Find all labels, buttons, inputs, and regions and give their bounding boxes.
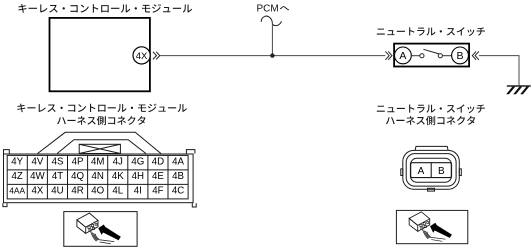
svg-text:4P: 4P: [72, 157, 84, 168]
svg-text:4O: 4O: [91, 186, 104, 197]
svg-text:PCM: PCM: [257, 3, 279, 14]
label: neutral switch harness-side connector: [377, 104, 485, 125]
svg-text:B: B: [438, 166, 445, 177]
svg-text:A: A: [418, 166, 425, 177]
svg-text:4I: 4I: [134, 186, 142, 197]
label: PCM-he (to PCM): [257, 3, 290, 14]
svg-text:4X: 4X: [136, 51, 148, 62]
neutral switch box S1: [394, 44, 469, 67]
svg-text:4U: 4U: [51, 186, 63, 197]
wire break symbol (goes to PCM): [261, 16, 272, 24]
connector pin 4X on module: [133, 47, 150, 64]
svg-text:4V: 4V: [31, 157, 43, 168]
svg-text:4A: 4A: [172, 157, 184, 168]
icon: connector viewed from harness side (right): [396, 210, 467, 243]
svg-text:4S: 4S: [52, 157, 64, 168]
svg-text:4B: 4B: [172, 171, 184, 182]
wire from module pin 4X to neutral switch pin A: [160, 55, 386, 57]
svg-text:4H: 4H: [132, 171, 144, 182]
label: neutral switch title: [377, 27, 485, 36]
switch contact left: [420, 54, 424, 58]
svg-text:4R: 4R: [71, 186, 83, 197]
ground symbol (chassis ground): [506, 85, 531, 94]
wire from switch B to ground: [479, 56, 519, 86]
svg-text:4J: 4J: [113, 157, 123, 168]
connector latch (top): [38, 132, 161, 153]
svg-text:4C: 4C: [172, 186, 184, 197]
svg-text:A: A: [399, 50, 406, 62]
connector body (keyless module harness connector): [3, 150, 196, 207]
svg-text:4M: 4M: [91, 157, 104, 168]
wire contact to terminal B: [442, 55, 451, 57]
label: keyless control module harness-side connector: [17, 104, 186, 126]
svg-text:4Y: 4Y: [11, 157, 23, 168]
svg-text:4E: 4E: [152, 171, 164, 182]
terminal cavity box A B: [411, 163, 452, 178]
svg-text:4X: 4X: [31, 186, 43, 197]
label: keyless control module title: [18, 4, 192, 13]
svg-text:4F: 4F: [152, 186, 163, 197]
wire PCM branch: [271, 24, 273, 56]
svg-text:4Q: 4Q: [71, 171, 84, 182]
connector chevron out of switch: [472, 51, 479, 59]
svg-text:4T: 4T: [52, 171, 63, 182]
connector chevron into switch: [385, 51, 392, 59]
svg-text:4G: 4G: [131, 157, 144, 168]
wire terminal A to contact: [411, 55, 420, 57]
switch terminal B: [452, 47, 469, 64]
junction node on main wire: [270, 53, 274, 57]
switch contact right: [438, 54, 442, 58]
connector chevron out of module (inline connector marker): [153, 52, 160, 60]
connector pin grid: [7, 155, 188, 199]
svg-text:4L: 4L: [112, 186, 123, 197]
svg-text:4Z: 4Z: [12, 171, 23, 182]
icon: connector viewed from harness side (left): [64, 212, 137, 247]
svg-text:4W: 4W: [30, 171, 45, 182]
oval connector (neutral switch harness connector): [401, 146, 462, 191]
switch blade (open): [423, 49, 439, 54]
svg-text:4K: 4K: [112, 171, 124, 182]
svg-text:4AA: 4AA: [9, 186, 25, 196]
switch terminal A: [395, 47, 412, 64]
svg-text:4N: 4N: [92, 171, 104, 182]
connector pin labels: [9, 157, 184, 197]
svg-text:4D: 4D: [152, 157, 164, 168]
module box U1 keyless control module: [50, 18, 150, 91]
svg-text:B: B: [456, 50, 463, 62]
